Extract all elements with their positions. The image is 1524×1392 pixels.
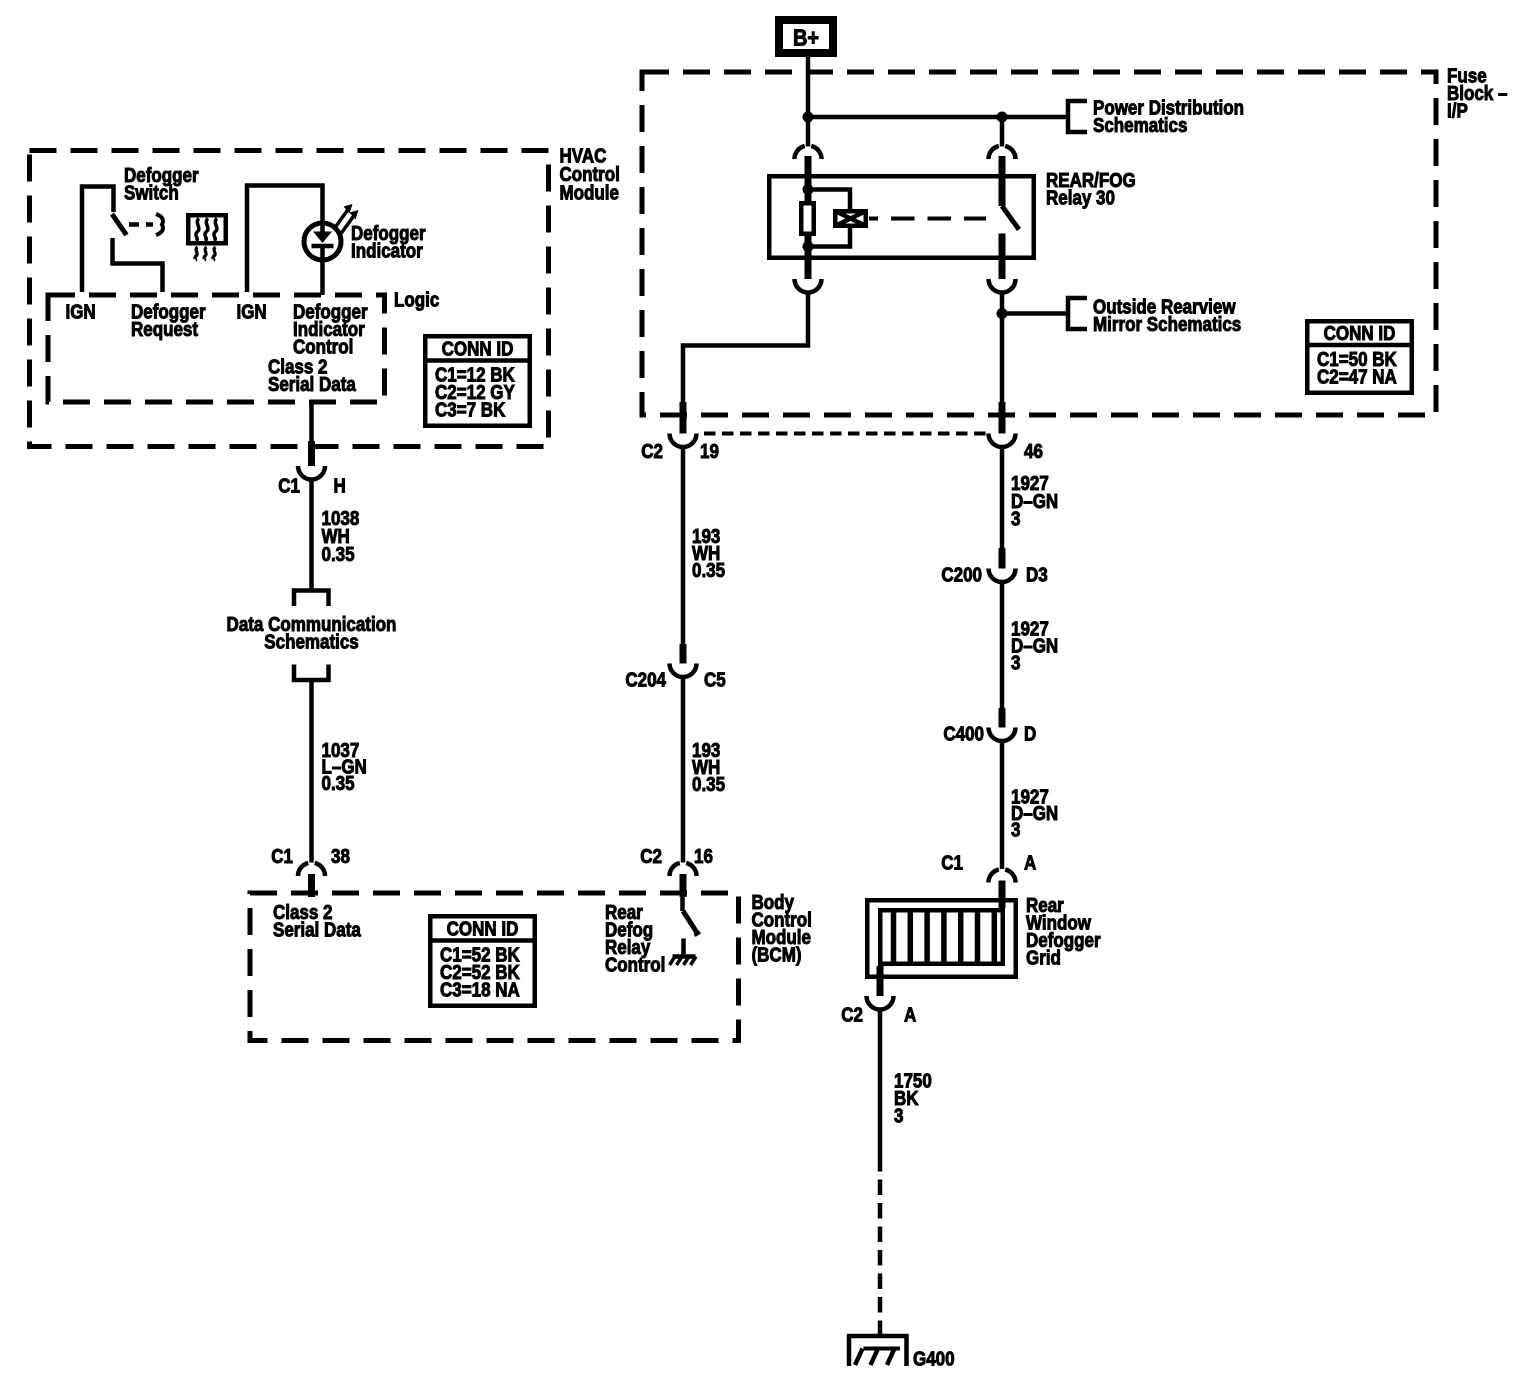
svg-text:Request: Request bbox=[131, 318, 198, 341]
svg-text:IGN: IGN bbox=[237, 300, 267, 323]
svg-text:Schematics: Schematics bbox=[1093, 114, 1187, 137]
svg-text:C2: C2 bbox=[841, 1003, 863, 1026]
svg-text:3: 3 bbox=[1011, 818, 1020, 841]
svg-text:H: H bbox=[334, 474, 346, 497]
svg-text:C1: C1 bbox=[278, 474, 300, 497]
svg-text:(BCM): (BCM) bbox=[752, 943, 802, 966]
svg-text:Relay 30: Relay 30 bbox=[1046, 186, 1115, 209]
svg-text:B+: B+ bbox=[793, 24, 819, 51]
svg-text:38: 38 bbox=[331, 845, 350, 868]
svg-text:C3=7 BK: C3=7 BK bbox=[435, 398, 506, 421]
svg-text:0.35: 0.35 bbox=[692, 773, 725, 796]
svg-text:3: 3 bbox=[1011, 507, 1020, 530]
svg-text:0.35: 0.35 bbox=[322, 543, 355, 566]
svg-text:G400: G400 bbox=[913, 1347, 955, 1370]
svg-text:16: 16 bbox=[694, 845, 713, 868]
svg-text:C2=47 NA: C2=47 NA bbox=[1317, 365, 1397, 388]
svg-text:0.35: 0.35 bbox=[692, 559, 725, 582]
svg-text:Logic: Logic bbox=[394, 288, 439, 311]
svg-text:Serial Data: Serial Data bbox=[273, 918, 361, 941]
svg-text:Grid: Grid bbox=[1026, 946, 1061, 969]
svg-text:Switch: Switch bbox=[124, 181, 179, 204]
svg-text:C200: C200 bbox=[941, 563, 982, 586]
svg-text:CONN ID: CONN ID bbox=[442, 337, 514, 360]
svg-text:Control: Control bbox=[605, 953, 665, 976]
svg-text:Serial Data: Serial Data bbox=[268, 373, 356, 396]
svg-text:CONN ID: CONN ID bbox=[1324, 322, 1396, 345]
svg-text:3: 3 bbox=[1011, 651, 1020, 674]
svg-text:D: D bbox=[1024, 722, 1036, 745]
svg-text:CONN ID: CONN ID bbox=[447, 917, 519, 940]
svg-text:3: 3 bbox=[894, 1104, 903, 1127]
svg-text:19: 19 bbox=[700, 440, 719, 463]
svg-text:Mirror Schematics: Mirror Schematics bbox=[1093, 313, 1241, 336]
svg-text:C3=18 NA: C3=18 NA bbox=[440, 978, 520, 1001]
svg-text:I/P: I/P bbox=[1447, 99, 1468, 122]
svg-text:A: A bbox=[1024, 851, 1036, 874]
svg-text:C2: C2 bbox=[640, 845, 662, 868]
svg-text:Indicator: Indicator bbox=[351, 239, 423, 262]
svg-text:D3: D3 bbox=[1026, 563, 1048, 586]
svg-text:C400: C400 bbox=[943, 722, 984, 745]
svg-text:C5: C5 bbox=[704, 668, 726, 691]
svg-text:C204: C204 bbox=[625, 668, 666, 691]
svg-text:IGN: IGN bbox=[66, 300, 96, 323]
svg-text:A: A bbox=[904, 1003, 916, 1026]
svg-text:C1: C1 bbox=[941, 851, 963, 874]
svg-text:Module: Module bbox=[560, 181, 619, 204]
svg-text:46: 46 bbox=[1024, 440, 1043, 463]
svg-text:0.35: 0.35 bbox=[322, 772, 355, 795]
svg-text:C1: C1 bbox=[271, 845, 293, 868]
svg-text:Schematics: Schematics bbox=[264, 630, 358, 653]
svg-text:C2: C2 bbox=[641, 440, 663, 463]
